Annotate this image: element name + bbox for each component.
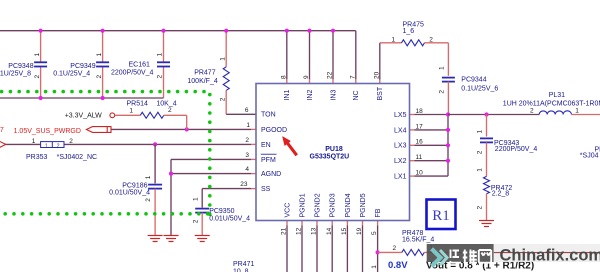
svg-text:0.1U/25V_6: 0.1U/25V_6 [461, 86, 498, 93]
svg-text:R1: R1 [432, 208, 450, 224]
svg-text:2: 2 [245, 137, 249, 144]
svg-text:11: 11 [416, 154, 423, 161]
svg-text:10K_4: 10K_4 [156, 101, 176, 108]
svg-text:2: 2 [34, 75, 41, 79]
svg-text:NC: NC [353, 90, 360, 100]
svg-text:3: 3 [245, 152, 249, 159]
svg-text:*SJ0402_NC: *SJ0402_NC [57, 154, 97, 161]
svg-text:0.01U/50V_4: 0.01U/50V_4 [209, 215, 250, 222]
svg-text:22: 22 [327, 71, 334, 79]
svg-text:16.5K/F_4: 16.5K/F_4 [402, 237, 434, 244]
svg-text:PGND2: PGND2 [314, 193, 321, 217]
svg-text:1_6: 1_6 [403, 28, 415, 35]
svg-text:15: 15 [341, 227, 348, 235]
svg-text:7: 7 [349, 75, 356, 79]
svg-text:PGND4: PGND4 [345, 193, 352, 217]
svg-text:2: 2 [168, 107, 172, 114]
svg-text:10_8: 10_8 [233, 268, 249, 272]
svg-text:23: 23 [240, 181, 248, 188]
svg-text:1: 1 [32, 138, 36, 145]
svg-text:PC9348: PC9348 [8, 63, 33, 70]
svg-text:0.1U/25V_4: 0.1U/25V_4 [53, 70, 90, 77]
svg-text:1: 1 [34, 53, 41, 57]
svg-text:2: 2 [157, 75, 164, 79]
svg-text:17: 17 [416, 123, 424, 130]
svg-text:4: 4 [245, 166, 249, 173]
svg-text:2: 2 [392, 245, 396, 252]
svg-text:13: 13 [311, 227, 318, 235]
svg-text:2: 2 [96, 75, 103, 79]
svg-text:SS: SS [261, 186, 271, 193]
svg-text:1: 1 [219, 57, 226, 61]
svg-text:LX3: LX3 [394, 143, 407, 150]
svg-text:PC9350: PC9350 [209, 208, 234, 215]
svg-text:1: 1 [157, 53, 164, 57]
svg-text:PGND1: PGND1 [299, 193, 306, 217]
svg-text:IN2: IN2 [307, 90, 314, 101]
svg-text:LX2: LX2 [394, 158, 407, 165]
svg-text:+3.3V_ALW: +3.3V_ALW [65, 112, 102, 119]
svg-text:1: 1 [246, 122, 250, 129]
svg-text:2: 2 [145, 198, 152, 202]
svg-text:EC161: EC161 [129, 61, 151, 68]
svg-text:5: 5 [371, 231, 378, 235]
svg-text:PGND3: PGND3 [330, 193, 337, 217]
svg-text:6: 6 [245, 107, 249, 114]
svg-text:0.01U/50V_4: 0.01U/50V_4 [109, 190, 150, 197]
svg-text:10: 10 [416, 170, 424, 177]
svg-text:18: 18 [416, 108, 424, 115]
svg-text:LX5: LX5 [394, 112, 407, 119]
svg-text:1: 1 [476, 168, 483, 172]
svg-text:87: 87 [0, 127, 4, 134]
svg-text:G5335QT2U: G5335QT2U [310, 153, 350, 160]
svg-text:8: 8 [280, 75, 287, 79]
svg-text:1.05V_SUS_PWRGD: 1.05V_SUS_PWRGD [14, 128, 81, 135]
svg-text:14: 14 [326, 227, 333, 235]
svg-text:0.1U/25V_8: 0.1U/25V_8 [0, 70, 31, 77]
svg-text:1: 1 [439, 66, 446, 70]
svg-text:21: 21 [281, 227, 288, 235]
svg-text:2: 2 [476, 150, 483, 154]
svg-text:AGND: AGND [261, 171, 281, 178]
svg-text:2: 2 [69, 138, 73, 145]
svg-text:12: 12 [296, 227, 303, 235]
svg-text:FB: FB [375, 208, 382, 217]
svg-text:EN: EN [261, 142, 271, 149]
svg-text:PR477: PR477 [194, 70, 216, 77]
svg-text:1: 1 [45, 143, 48, 149]
svg-text:1: 1 [145, 175, 152, 179]
svg-text:LX4: LX4 [394, 127, 407, 134]
svg-text:19: 19 [356, 227, 363, 235]
svg-text:1UH 20%11A(PCMC063T-1R0MN: 1UH 20%11A(PCMC063T-1R0MN [503, 100, 600, 107]
svg-text:2: 2 [530, 108, 534, 115]
svg-text:1: 1 [575, 108, 579, 115]
svg-text:16: 16 [416, 139, 424, 146]
svg-text:PR471: PR471 [233, 261, 255, 268]
svg-text:LX1: LX1 [394, 174, 407, 181]
svg-text:PFM: PFM [261, 157, 276, 164]
svg-text:2: 2 [193, 219, 200, 223]
svg-text:1: 1 [476, 130, 483, 134]
svg-text:9: 9 [303, 75, 310, 79]
svg-text:20: 20 [373, 71, 380, 79]
svg-text:Chinafix.com: Chinafix.com [500, 246, 600, 264]
svg-text:1: 1 [193, 197, 200, 201]
svg-text:2: 2 [219, 97, 226, 101]
svg-text:1: 1 [371, 265, 378, 269]
svg-text:2: 2 [57, 143, 60, 149]
svg-text:1: 1 [129, 107, 133, 114]
svg-text:PC9349: PC9349 [70, 63, 95, 70]
svg-text:0.8V: 0.8V [388, 260, 408, 271]
svg-text:2: 2 [476, 206, 483, 210]
svg-text:1: 1 [391, 37, 395, 44]
svg-text:1: 1 [96, 53, 103, 57]
svg-text:2200P/50V_4: 2200P/50V_4 [111, 70, 154, 77]
svg-text:BST: BST [377, 86, 384, 100]
svg-text:VCC: VCC [284, 203, 291, 218]
svg-text:*SJ04: *SJ04 [580, 152, 599, 159]
svg-text:PU18: PU18 [325, 146, 343, 153]
svg-text:PR353: PR353 [26, 154, 48, 161]
svg-text:PGOOD: PGOOD [261, 127, 287, 134]
svg-text:IN3: IN3 [330, 90, 337, 101]
svg-text:2.2_8: 2.2_8 [492, 191, 510, 198]
svg-text:PC9344: PC9344 [461, 76, 486, 83]
svg-text:2200P/50V_4: 2200P/50V_4 [495, 146, 538, 153]
svg-text:IN1: IN1 [284, 90, 291, 101]
svg-text:TON: TON [261, 112, 276, 119]
svg-text:100K/F_4: 100K/F_4 [187, 78, 217, 85]
svg-text:2: 2 [439, 90, 446, 94]
svg-text:PL31: PL31 [549, 92, 565, 99]
svg-text:PGND5: PGND5 [360, 193, 367, 217]
svg-text:2: 2 [429, 37, 433, 44]
svg-text:PC9186: PC9186 [122, 183, 147, 190]
